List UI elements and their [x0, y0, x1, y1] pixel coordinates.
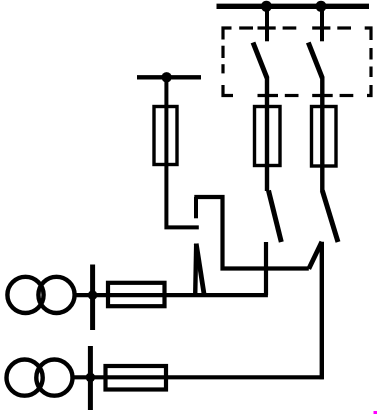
stray magenta scan mark — [374, 411, 377, 414]
fuse F5 body — [106, 366, 167, 390]
disconnector Q2 open blade — [308, 43, 322, 79]
wire: stub from node B — [320, 6, 324, 41]
wire: Q2 to fuse F2 through fuse body — [320, 77, 324, 191]
fuse F1 body — [255, 107, 281, 166]
switch Q3 fixed contact riser — [264, 242, 268, 295]
fuse F2 body — [312, 107, 337, 167]
wire: step from node D right and down to lower feeder — [194, 197, 308, 269]
transformer T1 winding 2 — [38, 277, 74, 313]
top busbar — [217, 4, 370, 9]
transformer T1 winding 1 — [7, 277, 43, 313]
transformer T2 winding 1 — [7, 360, 43, 396]
wire: Q1 to fuse F1 through fuse body — [265, 77, 269, 191]
wire: node C down through fuse F3 to corner and right — [166, 77, 198, 227]
junction dot at T1 — [88, 290, 98, 300]
switch Q5 fixed contact riser — [195, 244, 196, 296]
dashed enclosure (switchgear cubicle) — [223, 28, 371, 96]
transformer T2 winding 2 — [36, 360, 72, 396]
fuse F4 body — [108, 283, 165, 306]
left busbar — [137, 75, 201, 79]
bus tick at T2 — [88, 346, 93, 410]
switch Q5 open blade — [196, 244, 204, 296]
disconnector Q1 open blade — [253, 43, 267, 79]
junction dot node A — [261, 1, 272, 12]
switch Q3 open blade (below fuse F1) — [269, 191, 282, 243]
wire: transformer T1 feeder through fuse F4 — [75, 293, 268, 297]
junction dot at T2 — [86, 373, 96, 383]
wire: riser from bottom feeder to switch Q4 contact — [320, 242, 324, 379]
fuse F3 body — [154, 107, 177, 165]
wire: stub from node A — [265, 6, 269, 41]
junction dot node C — [161, 72, 171, 82]
wire: stub down at node D — [194, 197, 198, 218]
junction dot node B — [316, 1, 327, 12]
wire: transformer T2 feeder through fuse F5 to riser — [73, 375, 324, 379]
bus tick at T1 — [90, 265, 95, 331]
switch Q4 open blade (below fuse F2) — [322, 191, 338, 243]
switch Q4 fixed contact blade link — [309, 242, 322, 269]
